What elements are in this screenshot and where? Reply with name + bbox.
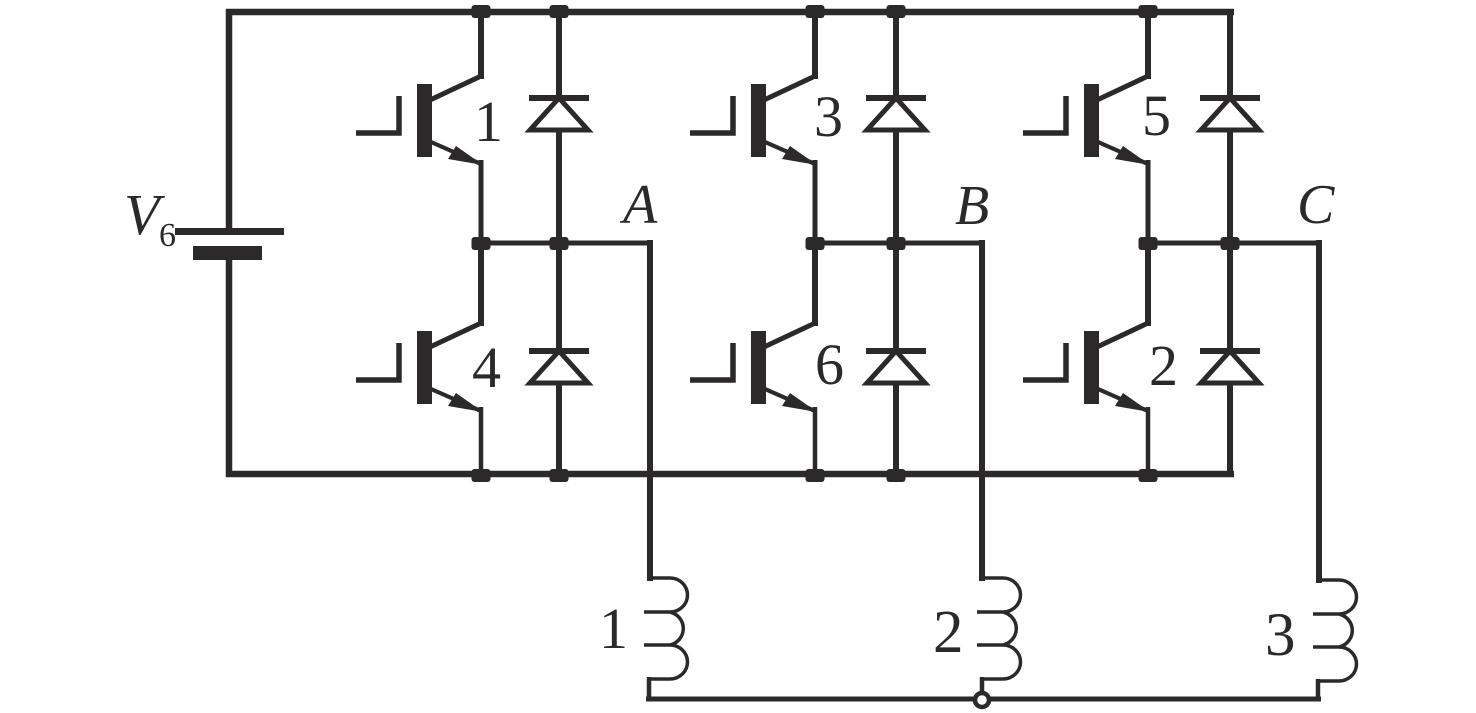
- junction top bus T1: [472, 5, 491, 18]
- junction node B D3: [887, 237, 906, 250]
- wire diode D1 top: [556, 12, 562, 97]
- wire battery negative: [226, 260, 233, 477]
- bottom DC bus wire: [226, 471, 1234, 478]
- svg-text:B: B: [955, 175, 989, 237]
- wire diode D1 bottom: [556, 128, 562, 246]
- battery V6 negative plate: [193, 246, 262, 260]
- wire collector 6: [812, 243, 818, 326]
- wire diode D6 top: [893, 243, 899, 350]
- transistor 4: [356, 324, 483, 412]
- wire emitter 1: [479, 160, 484, 246]
- wire phase A vertical: [647, 240, 653, 581]
- diode D4: [529, 348, 589, 383]
- wire diode D4 top: [556, 243, 562, 350]
- transistor 2: [1023, 324, 1150, 412]
- wire phase B vertical: [979, 240, 985, 581]
- transistor 5: [1023, 77, 1150, 165]
- diode D3: [866, 95, 926, 130]
- wire phase C vertical: [1316, 240, 1322, 583]
- junction node C T5: [1139, 237, 1158, 250]
- junction bottom bus T4: [472, 469, 491, 482]
- wire neutral bottom: [646, 697, 1321, 702]
- svg-text:5: 5: [1142, 83, 1171, 148]
- wire collector 2: [1145, 243, 1151, 326]
- wire diode D4 bottom: [556, 381, 562, 477]
- winding 1: [644, 578, 688, 699]
- svg-text:1: 1: [474, 89, 503, 154]
- junction bottom bus D4: [550, 469, 569, 482]
- wire diode D5 bottom: [1227, 128, 1233, 246]
- svg-text:2: 2: [933, 599, 964, 666]
- wire collector 4: [478, 243, 484, 326]
- wire diode D3 top: [893, 12, 899, 97]
- wire emitter 5: [1146, 160, 1151, 246]
- wire collector 5: [1145, 12, 1151, 79]
- transistor 3: [690, 77, 817, 165]
- transistor 6: [690, 324, 817, 412]
- wire diode D2 bottom: [1227, 381, 1233, 477]
- svg-text:6: 6: [815, 332, 844, 397]
- junction top bus T3: [806, 5, 825, 18]
- top DC bus wire: [226, 9, 1234, 16]
- diode D1: [529, 95, 589, 130]
- battery V6 positive plate: [175, 228, 284, 235]
- svg-text:1: 1: [599, 596, 628, 661]
- wire node A horizontal: [481, 241, 653, 246]
- junction bottom bus T2: [1139, 469, 1158, 482]
- junction top bus D1: [550, 5, 569, 18]
- wire diode D6 bottom: [893, 381, 899, 477]
- junction top bus D3: [887, 5, 906, 18]
- neutral node circle: [975, 693, 989, 707]
- junction top bus T5: [1139, 5, 1158, 18]
- junction node A D1: [550, 237, 569, 250]
- wire diode D3 bottom: [893, 128, 899, 246]
- winding 2: [977, 578, 1021, 699]
- wire emitter 4: [479, 407, 484, 477]
- wire collector 1: [478, 12, 484, 79]
- junction node A T1: [472, 237, 491, 250]
- svg-text:A: A: [619, 174, 658, 236]
- diode D2: [1200, 348, 1260, 383]
- wire emitter 6: [813, 407, 818, 477]
- wire collector 3: [812, 12, 818, 79]
- wire diode D5 top: [1227, 9, 1233, 97]
- svg-text:3: 3: [1265, 602, 1296, 669]
- svg-text:2: 2: [1149, 333, 1178, 398]
- junction node C D5: [1221, 237, 1240, 250]
- winding 3: [1313, 580, 1357, 701]
- wire node B horizontal: [815, 241, 984, 246]
- junction bottom bus D6: [887, 469, 906, 482]
- junction bottom bus T6: [806, 469, 825, 482]
- svg-text:4: 4: [472, 335, 501, 400]
- wire diode D2 top: [1227, 243, 1233, 350]
- svg-text:C: C: [1297, 174, 1335, 236]
- junction node B T3: [806, 237, 825, 250]
- transistor 1: [356, 77, 483, 165]
- wire emitter 2: [1146, 407, 1151, 477]
- svg-text:3: 3: [814, 84, 843, 149]
- svg-text:6: 6: [159, 217, 176, 254]
- diode D5: [1200, 95, 1260, 130]
- wire emitter 3: [813, 160, 818, 246]
- wire battery positive: [226, 9, 233, 229]
- wire node C horizontal: [1148, 241, 1321, 246]
- diode D6: [866, 348, 926, 383]
